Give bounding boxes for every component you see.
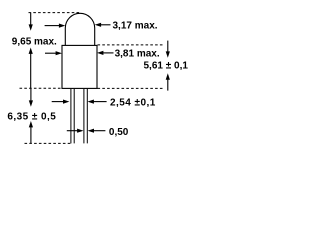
dimension 3,17 right arrow	[95, 23, 111, 27]
dashed extension line: dome top	[29, 12, 81, 14]
dashed extension line: body bottom right	[98, 87, 165, 89]
svg-text:5,61 ± 0,1: 5,61 ± 0,1	[144, 61, 189, 72]
dashed extension line: lead ends	[25, 142, 71, 144]
dimension 0,50 left arrow	[67, 129, 84, 133]
dimension 0,50 right arrow	[88, 129, 106, 133]
lead right	[84, 89, 87, 143]
dimension 2,54 right arrow	[88, 100, 107, 104]
dashed extension line: body top right	[98, 44, 164, 46]
svg-text:2,54 ±0,1: 2,54 ±0,1	[110, 97, 156, 108]
dimension 5,61 lower arrow	[166, 73, 170, 90]
dimension 9,65 lower arrow	[29, 48, 33, 89]
dimension 6,35 upper arrow	[29, 88, 33, 106]
LED body flange rectangle	[62, 45, 97, 88]
dashed extension line: body bottom left	[20, 87, 62, 89]
dimension 3,17 left arrow	[45, 24, 66, 28]
dimension 3,81 left arrow	[45, 51, 62, 55]
svg-text:6,35 ± 0,5: 6,35 ± 0,5	[7, 111, 56, 122]
svg-text:3,17 max.: 3,17 max.	[113, 20, 158, 31]
LED body outline: dome and cylinder	[65, 13, 94, 45]
dimension 9,65 upper arrow	[29, 13, 33, 31]
svg-text:9,65 max.: 9,65 max.	[12, 37, 57, 48]
dimension 3,81 right arrow	[97, 51, 114, 55]
dimension 6,35 lower arrow	[29, 121, 33, 143]
lead left	[71, 89, 74, 143]
dimension 2,54 left arrow	[52, 100, 70, 104]
dimension 5,61 upper arrow	[166, 41, 170, 58]
svg-text:0,50: 0,50	[109, 127, 129, 138]
svg-text:3,81 max.: 3,81 max.	[115, 48, 160, 59]
